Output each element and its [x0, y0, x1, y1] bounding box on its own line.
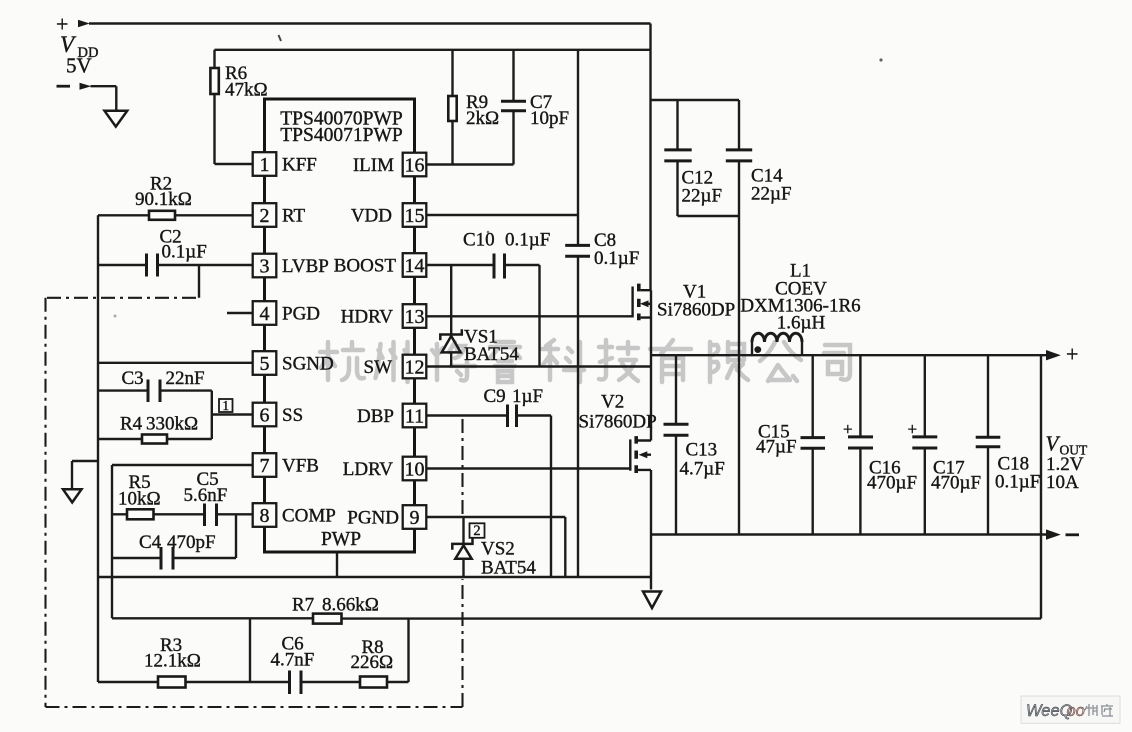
svg-text:oo: oo — [1067, 702, 1085, 720]
svg-text:SGND: SGND — [282, 354, 334, 375]
svg-text:HDRV: HDRV — [341, 307, 394, 328]
svg-text:R4: R4 — [120, 414, 143, 435]
svg-text:5: 5 — [260, 353, 270, 375]
svg-text:LDRV: LDRV — [343, 459, 393, 480]
svg-text:C13: C13 — [686, 440, 718, 461]
svg-text:470µF: 470µF — [931, 473, 981, 494]
svg-text:10kΩ: 10kΩ — [118, 489, 161, 510]
svg-text:0.1µF: 0.1µF — [505, 230, 550, 251]
svg-text:22µF: 22µF — [682, 186, 723, 207]
svg-text:0.1µF: 0.1µF — [162, 242, 207, 263]
svg-text:10pF: 10pF — [530, 108, 569, 129]
svg-text:C3: C3 — [122, 368, 144, 389]
svg-text:+: + — [1066, 342, 1078, 367]
svg-text:9: 9 — [410, 507, 420, 529]
svg-text:BAT54: BAT54 — [481, 558, 536, 579]
svg-text:6: 6 — [260, 405, 270, 427]
svg-text:14: 14 — [405, 255, 425, 277]
svg-text:KFF: KFF — [282, 155, 317, 176]
svg-text:470pF: 470pF — [167, 532, 216, 553]
svg-text:1µF: 1µF — [512, 386, 543, 407]
svg-text:4.7nF: 4.7nF — [271, 650, 315, 671]
svg-text:SW: SW — [364, 357, 393, 378]
svg-text:12: 12 — [405, 357, 425, 379]
svg-text:ILIM: ILIM — [353, 155, 394, 176]
svg-text:5V: 5V — [66, 54, 92, 78]
svg-text:16: 16 — [405, 155, 425, 177]
svg-text:10A: 10A — [1046, 472, 1079, 493]
svg-text:DBP: DBP — [357, 406, 394, 427]
svg-text:COMP: COMP — [282, 506, 336, 527]
svg-text:C9: C9 — [484, 386, 506, 407]
svg-text:2: 2 — [473, 523, 480, 539]
svg-text:Si7860DP: Si7860DP — [657, 300, 735, 321]
svg-text:Si7860DP: Si7860DP — [579, 412, 657, 433]
svg-text:VS2: VS2 — [481, 539, 515, 560]
svg-text:13: 13 — [405, 306, 425, 328]
svg-text:LVBP: LVBP — [282, 256, 329, 277]
svg-text:BOOST: BOOST — [334, 256, 397, 277]
svg-text:+: + — [908, 420, 918, 439]
svg-text:22nF: 22nF — [166, 368, 205, 389]
svg-text:VDD: VDD — [351, 206, 392, 227]
svg-text:2kΩ: 2kΩ — [466, 108, 499, 129]
svg-text:V2: V2 — [601, 392, 624, 413]
svg-text:2: 2 — [260, 205, 270, 227]
svg-text:VFB: VFB — [282, 456, 319, 477]
svg-text:C4: C4 — [139, 532, 162, 553]
svg-text:PWP: PWP — [321, 529, 361, 550]
svg-text:8: 8 — [260, 505, 270, 527]
svg-text:4: 4 — [260, 303, 270, 325]
svg-text:BAT54: BAT54 — [464, 344, 519, 365]
svg-text:12.1kΩ: 12.1kΩ — [144, 651, 201, 672]
svg-text:15: 15 — [405, 205, 425, 227]
svg-text:C10: C10 — [463, 230, 495, 251]
svg-text:PGND: PGND — [347, 508, 399, 529]
svg-text:V: V — [1046, 432, 1061, 456]
svg-text:4.7µF: 4.7µF — [680, 459, 725, 480]
svg-text:PGD: PGD — [282, 304, 320, 325]
svg-text:1.6µH: 1.6µH — [777, 313, 826, 334]
svg-text:0.1µF: 0.1µF — [594, 248, 639, 269]
svg-text:226Ω: 226Ω — [351, 652, 394, 673]
svg-text:10: 10 — [405, 459, 425, 481]
svg-text:RT: RT — [282, 206, 306, 227]
svg-text:470µF: 470µF — [867, 473, 917, 494]
svg-text:22µF: 22µF — [751, 184, 792, 205]
svg-text:330kΩ: 330kΩ — [146, 414, 198, 435]
svg-text:7: 7 — [260, 455, 270, 477]
svg-text:+: + — [843, 420, 853, 439]
svg-text:R7: R7 — [292, 595, 314, 616]
svg-text:SS: SS — [282, 405, 303, 426]
svg-text:1: 1 — [260, 154, 270, 176]
svg-text:5.6nF: 5.6nF — [184, 485, 228, 506]
svg-text:3: 3 — [260, 256, 270, 278]
svg-text:TPS40071PWP: TPS40071PWP — [280, 125, 403, 146]
svg-text:8.66kΩ: 8.66kΩ — [322, 595, 379, 616]
svg-text:47kΩ: 47kΩ — [225, 80, 268, 101]
svg-text:11: 11 — [405, 406, 424, 428]
svg-text:1: 1 — [222, 398, 229, 413]
svg-text:0.1µF: 0.1µF — [995, 472, 1040, 493]
svg-text:90.1kΩ: 90.1kΩ — [135, 189, 192, 210]
svg-text:47µF: 47µF — [756, 437, 797, 458]
